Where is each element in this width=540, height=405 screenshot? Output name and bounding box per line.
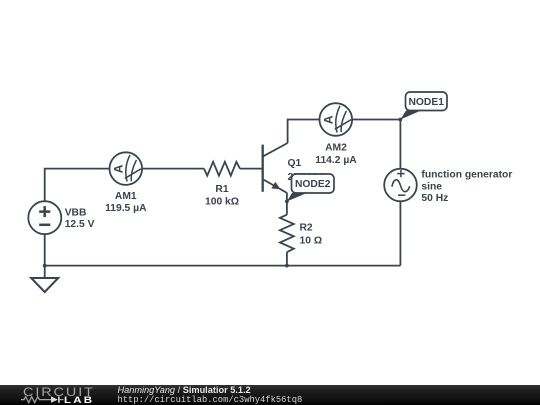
label function generator description [421, 170, 512, 205]
svg-text:114.2 µA: 114.2 µA [315, 155, 357, 166]
ammeter AM2 [320, 103, 353, 136]
node flag NODE2 [287, 174, 334, 201]
wire AM1 to R1 [142, 168, 204, 170]
svg-text:R1: R1 [215, 184, 228, 195]
svg-text:VBB: VBB [65, 208, 87, 219]
wire R2 bottom lead [286, 252, 288, 265]
wire VBB top lead [45, 169, 110, 202]
footer bar [0, 385, 540, 405]
wire Q1 collector lead [288, 120, 320, 144]
svg-text:A: A [321, 115, 335, 124]
junction node NODE1 [399, 118, 403, 122]
svg-text:R2: R2 [300, 223, 313, 234]
svg-text:NODE2: NODE2 [295, 179, 331, 190]
ammeter AM1 [110, 152, 143, 185]
node flag NODE1 [400, 92, 447, 120]
footer url text [118, 395, 303, 405]
CircuitLab logo [23, 387, 95, 398]
svg-text:Q1: Q1 [288, 158, 302, 169]
svg-text:function generator: function generator [421, 170, 512, 181]
svg-text:AM1: AM1 [115, 191, 137, 202]
wire generator to bottom [399, 201, 401, 265]
function generator V1 [384, 169, 417, 202]
footer attribution text [118, 385, 251, 395]
wire AM2 to node1 [352, 119, 400, 121]
svg-text:100 kΩ: 100 kΩ [205, 196, 239, 207]
junction node at VBB/ground [43, 264, 47, 268]
ground [31, 266, 58, 292]
svg-text:sine: sine [421, 181, 442, 192]
wire R1 to Q1 base [240, 168, 263, 170]
wire bottom rail [45, 265, 401, 267]
svg-text:AM2: AM2 [325, 143, 347, 154]
voltage source VBB [28, 201, 61, 234]
transistor Q1 [263, 143, 288, 201]
svg-text:50 Hz: 50 Hz [421, 193, 448, 204]
junction node NODE2 [285, 200, 289, 204]
wire R2 top lead [286, 201, 288, 214]
svg-text:12.5 V: 12.5 V [65, 219, 95, 230]
svg-text:10 Ω: 10 Ω [300, 235, 323, 246]
svg-text:A: A [111, 164, 125, 173]
wire right vertical to generator [399, 120, 401, 169]
resistor R1 [204, 162, 240, 176]
svg-text:NODE1: NODE1 [408, 97, 444, 108]
resistor R2 [280, 215, 294, 253]
wire VBB bottom lead [44, 234, 46, 265]
svg-text:119.5 µA: 119.5 µA [105, 203, 147, 214]
junction node at R2/bottom rail [285, 264, 289, 268]
